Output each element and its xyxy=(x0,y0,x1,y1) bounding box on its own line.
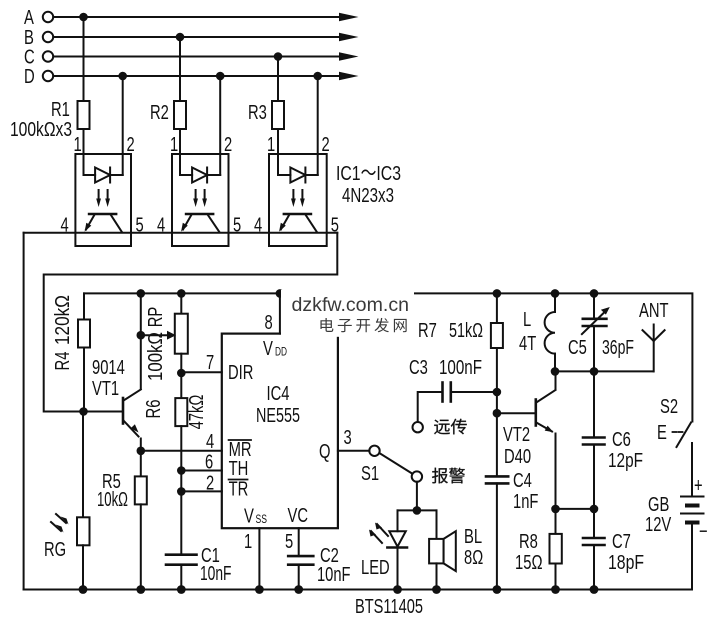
wire S1 to LED/BL node xyxy=(416,482,418,511)
wire LED/BL tee xyxy=(398,509,437,511)
wire emitter mid line xyxy=(556,508,595,510)
svg-text:V: V xyxy=(263,337,273,360)
wire top supply rail xyxy=(84,293,692,421)
wire VT2 base xyxy=(497,412,535,414)
capacitor C4 xyxy=(486,475,508,478)
VT1 emitter arrowhead xyxy=(131,424,139,432)
svg-text:100nF: 100nF xyxy=(439,356,482,379)
junction dot C5-tank xyxy=(590,367,599,376)
capacitor C7 xyxy=(593,509,595,538)
svg-text:10nF: 10nF xyxy=(317,563,351,586)
arrow line A xyxy=(339,13,359,21)
resistor R2 xyxy=(179,37,181,101)
svg-text:R7: R7 xyxy=(418,319,437,342)
wire osc mid line xyxy=(555,370,654,372)
svg-text:51kΩ: 51kΩ xyxy=(449,319,483,342)
wire bottom rail xyxy=(24,589,692,591)
svg-text:SS: SS xyxy=(256,512,268,526)
MR overline xyxy=(229,439,251,441)
wire line C xyxy=(53,56,341,58)
junction dot wiper xyxy=(137,331,146,340)
svg-text:RG: RG xyxy=(44,538,66,561)
svg-text:5: 5 xyxy=(285,530,293,553)
svg-text:2: 2 xyxy=(224,133,232,156)
junction dot rail-VT1c xyxy=(137,289,146,298)
resistor R5 xyxy=(140,451,142,477)
optocoupler IC2 xyxy=(172,154,229,246)
switch S2 E dashes xyxy=(673,431,677,433)
wire IC2 pin2 xyxy=(219,76,221,154)
svg-text:10nF: 10nF xyxy=(200,562,232,585)
node D terminal xyxy=(43,71,53,81)
switch S1 alarm contact xyxy=(412,471,422,481)
svg-text:R6: R6 xyxy=(142,400,165,419)
junction dot S1-LED/BL node xyxy=(413,506,422,515)
wire pin 5 VC xyxy=(298,528,300,556)
svg-text:ANT: ANT xyxy=(639,299,669,322)
junction dot VT2 base node xyxy=(493,409,502,418)
resistor R3 xyxy=(277,57,279,102)
junction dot D-IC2.2 xyxy=(216,72,225,81)
junction dot VT2e-R8 xyxy=(551,505,560,514)
svg-text:7: 7 xyxy=(206,351,214,374)
LED xyxy=(397,510,399,531)
svg-text:10kΩ: 10kΩ xyxy=(97,488,128,511)
junction dot RP-R6-pin7 xyxy=(177,369,186,378)
wire line A xyxy=(53,16,341,18)
junction dot L-tank xyxy=(551,367,560,376)
wire IC1 pin2 xyxy=(122,76,124,154)
svg-text:1: 1 xyxy=(74,133,82,156)
svg-text:2: 2 xyxy=(127,133,135,156)
junction dot rail-RP xyxy=(177,289,186,298)
LED light arrow 1 xyxy=(377,524,388,536)
potentiometer RP xyxy=(180,293,182,313)
svg-text:R8: R8 xyxy=(519,530,538,553)
svg-text:36pF: 36pF xyxy=(602,336,634,359)
svg-text:15Ω: 15Ω xyxy=(515,551,543,574)
svg-text:VT2: VT2 xyxy=(503,423,530,446)
op-amp U1 IC4 NE555 box xyxy=(222,334,338,529)
wire pin 6 TH xyxy=(181,470,222,472)
capacitor C1 xyxy=(166,553,197,556)
svg-text:Q: Q xyxy=(319,440,331,463)
wire line B xyxy=(53,36,341,38)
junction dot rail-C2 xyxy=(294,585,303,594)
svg-text:2: 2 xyxy=(322,133,330,156)
transistor VT1 xyxy=(122,398,125,424)
label yuanchuan xyxy=(434,419,467,435)
wire remote contact to C3 xyxy=(418,392,441,422)
junction dot rail-R7 xyxy=(493,289,502,298)
LED arrowheads xyxy=(375,523,382,530)
svg-text:100kΩx3: 100kΩx3 xyxy=(10,118,72,141)
svg-text:2: 2 xyxy=(206,472,214,495)
junction dot base node xyxy=(79,407,88,416)
switch S1 pivot terminal xyxy=(369,446,379,456)
resistor R7 xyxy=(496,293,498,323)
switch S2 blade xyxy=(677,423,692,448)
svg-text:NE555: NE555 xyxy=(256,404,300,427)
wire pin 8 xyxy=(279,293,281,333)
svg-text:3: 3 xyxy=(344,426,352,449)
LED light arrow 2 xyxy=(371,531,382,543)
svg-text:4N23x3: 4N23x3 xyxy=(342,184,394,207)
wire pin 4 MR xyxy=(141,450,222,452)
svg-text:DIR: DIR xyxy=(228,361,253,384)
svg-text:12pF: 12pF xyxy=(608,449,643,472)
svg-text:S2: S2 xyxy=(660,395,678,418)
svg-text:C6: C6 xyxy=(612,428,631,451)
svg-text:D: D xyxy=(24,65,35,88)
svg-text:9014: 9014 xyxy=(92,356,125,379)
wire pin 7 xyxy=(181,371,222,373)
svg-text:+: + xyxy=(694,474,703,497)
junction dot rail-L xyxy=(551,289,560,298)
potentiometer RP wiper arrow xyxy=(141,334,169,336)
wire opto output chain y232.7 xyxy=(24,232,338,234)
svg-text:S1: S1 xyxy=(361,462,379,485)
svg-text:8Ω: 8Ω xyxy=(464,546,483,569)
RP wiper arrowhead xyxy=(167,331,176,340)
junction dot rail-LED xyxy=(393,585,402,594)
svg-text:R4: R4 xyxy=(51,352,74,371)
svg-text:D40: D40 xyxy=(504,445,531,468)
svg-text:120kΩ: 120kΩ xyxy=(51,295,74,345)
junction dot C-R3 xyxy=(274,52,283,61)
svg-text:1nF: 1nF xyxy=(513,490,538,513)
resistor R6 xyxy=(180,373,182,398)
svg-text:V: V xyxy=(244,505,254,528)
junction dot rail-RG xyxy=(79,585,88,594)
RG light arrow 2 xyxy=(51,522,61,531)
svg-text:BL: BL xyxy=(464,525,482,548)
junction dot TH xyxy=(177,466,186,475)
svg-text:12V: 12V xyxy=(645,513,672,536)
wire line D xyxy=(53,75,341,77)
TR overline xyxy=(229,479,248,481)
junction dot rail-C5 xyxy=(590,289,599,298)
svg-text:IC4: IC4 xyxy=(267,382,290,405)
junction dot rail-R5 xyxy=(136,585,145,594)
switch S1 blade xyxy=(379,453,412,474)
svg-text:VC: VC xyxy=(288,504,309,527)
svg-text:6: 6 xyxy=(205,451,213,474)
svg-text:RP: RP xyxy=(144,307,167,328)
svg-text:100kΩ: 100kΩ xyxy=(144,332,167,381)
node C terminal xyxy=(43,51,53,61)
C5 arrowhead xyxy=(601,307,610,315)
wire left edge drop xyxy=(23,233,25,590)
arrow line D xyxy=(339,72,359,80)
resistor R4 xyxy=(83,293,85,319)
optocoupler IC3 xyxy=(269,154,327,246)
VT2 emitter arrowhead xyxy=(545,426,554,433)
junction dot C3-R7 xyxy=(493,388,502,397)
svg-text:C3: C3 xyxy=(409,356,428,379)
svg-text:1: 1 xyxy=(244,530,252,553)
svg-text:IC1～IC3: IC1～IC3 xyxy=(336,162,401,185)
wire pin 2 TR xyxy=(181,490,222,492)
svg-text:R3: R3 xyxy=(248,101,267,124)
svg-text:E: E xyxy=(657,421,667,444)
resistor R8 xyxy=(555,509,557,534)
svg-text:C5: C5 xyxy=(568,336,587,359)
resistor R1 xyxy=(83,17,85,101)
wire IC3 pin5 drop xyxy=(44,233,338,412)
label baojing xyxy=(432,468,465,484)
junction dot rail-pin1 xyxy=(255,585,264,594)
inductor L xyxy=(554,293,556,312)
variable capacitor C5 xyxy=(593,293,595,318)
junction dot rail-BL xyxy=(432,585,441,594)
capacitor C6 xyxy=(593,371,595,437)
RG light arrow 1 xyxy=(56,514,66,523)
antenna ANT xyxy=(653,325,655,372)
svg-text:dzkfw.com.cn: dzkfw.com.cn xyxy=(292,294,410,316)
junction dot D-IC3.2 xyxy=(313,72,322,81)
wire IC3 pin2 xyxy=(317,76,319,154)
svg-text:DD: DD xyxy=(275,347,287,359)
switch S1 remote contact xyxy=(413,422,423,432)
wire pin 3 Q xyxy=(338,450,369,452)
svg-text:47kΩ: 47kΩ xyxy=(185,395,208,430)
svg-text:1: 1 xyxy=(267,133,275,156)
arrow line B xyxy=(339,33,359,41)
junction dot rail-C7 xyxy=(590,585,599,594)
junction dot A-R1 xyxy=(79,13,88,22)
capacitor C3 xyxy=(441,383,444,402)
battery GB xyxy=(691,443,693,497)
wire pin 1 Vss xyxy=(258,528,260,589)
junction dot TR xyxy=(177,487,186,496)
junction dot D-IC1.2 xyxy=(118,72,127,81)
junction dot C6-C7 xyxy=(590,505,599,514)
svg-text:TR: TR xyxy=(229,478,249,501)
svg-text:−: − xyxy=(699,520,708,543)
svg-text:C7: C7 xyxy=(612,530,631,553)
svg-text:8: 8 xyxy=(265,311,273,334)
node A terminal xyxy=(43,12,53,22)
svg-text:4T: 4T xyxy=(519,332,537,355)
capacitor C2 xyxy=(288,555,313,558)
junction dot rail-R8 xyxy=(551,585,560,594)
junction dot rail-C1 xyxy=(177,585,186,594)
wire VT1 collector riser xyxy=(140,293,142,389)
junction dot rail-pin8 xyxy=(276,289,285,298)
RG arrowheads xyxy=(61,517,69,525)
junction dot emitter node xyxy=(137,447,146,456)
svg-text:C4: C4 xyxy=(513,469,532,492)
speaker BL xyxy=(436,510,438,539)
svg-text:R2: R2 xyxy=(150,101,169,124)
junction dot B-R2 xyxy=(176,33,185,42)
svg-text:BTS11405: BTS11405 xyxy=(355,595,423,618)
svg-text:VT1: VT1 xyxy=(92,377,119,400)
svg-text:L: L xyxy=(523,308,531,331)
svg-text:1: 1 xyxy=(170,133,178,156)
transistor VT2 xyxy=(534,400,537,426)
arrow line C xyxy=(339,52,359,60)
svg-text:LED: LED xyxy=(361,556,390,579)
watermark xyxy=(281,290,414,337)
node B terminal xyxy=(43,32,53,42)
svg-text:18pF: 18pF xyxy=(608,551,644,574)
photoresistor RG xyxy=(82,412,84,518)
junction dot rail-C4 xyxy=(493,585,502,594)
optocoupler IC1 xyxy=(75,154,131,246)
